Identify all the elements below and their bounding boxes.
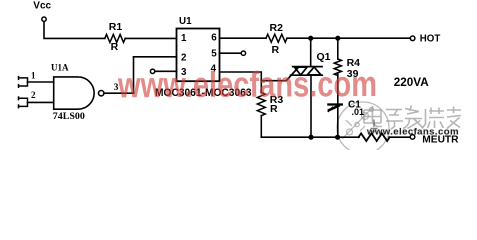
- svg-text:1: 1: [181, 33, 187, 44]
- svg-text:R: R: [270, 103, 278, 115]
- connector input 2: [19, 97, 28, 108]
- wire pin4: [220, 72, 262, 93]
- watermark grey chinese characters: [364, 106, 461, 132]
- wire cap to rail: [337, 108, 339, 138]
- svg-text:5: 5: [211, 49, 217, 60]
- svg-text:R1: R1: [109, 21, 123, 33]
- connector input 1: [19, 77, 28, 88]
- op-amp U1A nand gate body: [54, 77, 94, 109]
- wire R4 to cap: [337, 74, 339, 104]
- IC U1 box: [177, 29, 220, 82]
- svg-text:R: R: [272, 44, 280, 56]
- resistor R2: [266, 34, 287, 42]
- svg-text:R: R: [111, 41, 119, 53]
- svg-text:2: 2: [31, 90, 36, 100]
- resistor R4: [334, 59, 341, 76]
- Vcc terminal: [42, 17, 46, 21]
- capacitor C1: [328, 103, 341, 105]
- svg-text:.01: .01: [352, 107, 365, 117]
- wire pin6 to R2: [220, 37, 267, 39]
- resistor R3: [257, 93, 265, 116]
- wire R4 top: [337, 38, 339, 59]
- svg-text:220VA: 220VA: [394, 76, 429, 89]
- wire input 2: [28, 101, 54, 103]
- wire pin5 stub: [220, 52, 242, 54]
- svg-text:MEUTR: MEUTR: [422, 134, 459, 145]
- junction node triac bottom: [308, 135, 313, 140]
- wire R2 to HOT: [287, 37, 410, 39]
- svg-text:R2: R2: [270, 22, 284, 34]
- svg-text:2: 2: [181, 52, 187, 63]
- terminal NEUTR: [410, 135, 415, 140]
- svg-text:U1A: U1A: [51, 63, 69, 73]
- wire to NEUTR: [389, 136, 410, 138]
- wire R3 to rail: [261, 116, 359, 138]
- svg-text:HOT: HOT: [420, 33, 441, 44]
- wire triac top: [310, 38, 312, 66]
- svg-text:Vcc: Vcc: [33, 1, 51, 12]
- terminal HOT: [410, 36, 415, 41]
- transistor Q1 triac: [261, 67, 322, 81]
- resistor R1: [105, 34, 125, 42]
- wire Vcc stem: [44, 22, 105, 39]
- watermark grey stamp: [337, 102, 389, 154]
- terminal pin5: [241, 51, 245, 55]
- svg-text:6: 6: [211, 32, 217, 43]
- wire R1 to pin1: [125, 37, 176, 39]
- wire input 1: [28, 81, 54, 83]
- junction node cap bottom: [335, 135, 340, 140]
- resistor load: [359, 133, 390, 141]
- wire pin2: [134, 57, 177, 93]
- svg-text:Q1: Q1: [317, 51, 331, 63]
- wire nand output to node: [104, 92, 133, 94]
- junction node R4 top: [335, 36, 340, 41]
- wire pin3: [155, 70, 177, 72]
- watermark red www.elecfans.com: [117, 63, 377, 105]
- wire triac bottom: [310, 75, 312, 137]
- svg-text:1: 1: [31, 70, 36, 80]
- svg-text:74LS00: 74LS00: [53, 112, 85, 122]
- node pin3 terminal: [150, 69, 154, 73]
- svg-text:www.elecfans.com: www.elecfans.com: [117, 63, 377, 105]
- junction node R2/triac: [308, 36, 313, 41]
- svg-text:U1: U1: [179, 16, 192, 27]
- nand bubble: [99, 91, 104, 96]
